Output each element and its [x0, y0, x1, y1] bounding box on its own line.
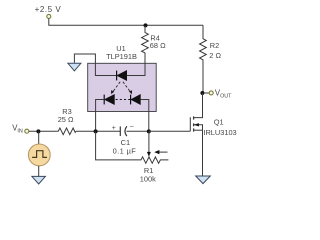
- svg-text:+2.5 V: +2.5 V: [35, 5, 62, 14]
- svg-text:68 Ω: 68 Ω: [150, 41, 166, 50]
- resistor R2: [200, 25, 207, 93]
- photodiode D-right inside U1: [131, 95, 141, 105]
- dashed series link between photodiodes: [116, 99, 131, 101]
- resistor R4: [142, 25, 149, 63]
- resistor R3: [57, 128, 77, 135]
- adjustment arrow: [154, 150, 167, 154]
- wire: junction down to pulse source: [38, 131, 40, 144]
- svg-text:25 Ω: 25 Ω: [58, 115, 74, 124]
- terminal VIN: [25, 129, 29, 133]
- ground (pulse source): [32, 176, 46, 184]
- ground (LED return): [68, 63, 81, 71]
- wire: photodiode cathode (bottom-left pin) down to input node: [96, 100, 105, 132]
- wire: LED anode up to R4 (top-right pin): [127, 63, 145, 75]
- wire: LED cathode to ground (top-left pin): [74, 54, 116, 76]
- junction: pulse source tap: [36, 129, 40, 133]
- wire: gate node to Q1 gate: [149, 130, 191, 132]
- terminal VOUT: [209, 91, 213, 95]
- junction: gate node: [147, 129, 151, 133]
- wire: Q1 source to ground: [202, 130, 204, 176]
- light emission arrows: [111, 82, 132, 94]
- wire: photodiode anode (bottom-right pin) down to gate node: [140, 100, 148, 132]
- power terminal +2.5 V: [47, 14, 51, 18]
- capacitor C1: [120, 126, 127, 136]
- pulse generator source: [28, 144, 50, 166]
- wire: pulse source to ground: [38, 166, 40, 176]
- ground (Q1 source): [196, 176, 211, 184]
- svg-text:−: −: [130, 124, 134, 131]
- svg-text:100k: 100k: [140, 174, 156, 183]
- svg-text:2 Ω: 2 Ω: [209, 51, 221, 60]
- svg-text:Q1: Q1: [214, 117, 224, 126]
- wire: VOUT stub: [204, 92, 209, 94]
- svg-text:C1: C1: [121, 138, 130, 147]
- svg-text:+: +: [112, 125, 116, 132]
- optocoupler U1 package box: [88, 63, 157, 111]
- svg-text:R2: R2: [210, 41, 219, 50]
- junction: VOUT node: [200, 91, 204, 95]
- wire: R1 left branch from input node: [96, 131, 140, 160]
- svg-text:IRLU3103: IRLU3103: [203, 128, 236, 137]
- svg-text:TLP191B: TLP191B: [106, 52, 137, 61]
- wire: VIN to R3: [29, 130, 57, 132]
- transistor Q1 (n-channel MOSFET): [190, 93, 202, 132]
- junction: input node (R3 / opto / R1 branch): [94, 129, 98, 133]
- resistor R1: [140, 157, 168, 163]
- LED (emitter) inside U1: [117, 71, 127, 81]
- wire: R3 to C1: [76, 130, 120, 132]
- wire: +2.5V terminal to top rail and across to R2: [49, 19, 203, 26]
- wiper arrow onto R1: [147, 131, 151, 156]
- svg-text:0.1 µF: 0.1 µF: [113, 147, 137, 156]
- junction: top rail / R4: [144, 23, 148, 27]
- photodiode D-left inside U1: [104, 95, 114, 105]
- wire: C1 to gate node: [127, 130, 149, 132]
